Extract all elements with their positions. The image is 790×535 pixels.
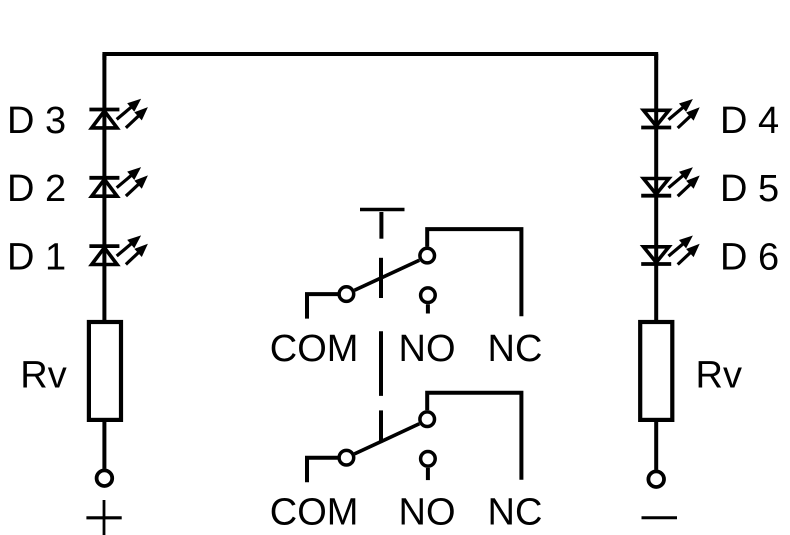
LED D2 (anode bottom, cathode bar top) — [89, 178, 119, 196]
LED D5 (anode top, cathode bar bottom) — [641, 179, 671, 196]
LED D1 emission arrows — [117, 235, 148, 264]
terminal + (left) — [97, 470, 113, 486]
switch S1 lever (COM to NC, closed) — [355, 260, 420, 290]
LED D4 emission arrows — [669, 99, 700, 128]
svg-text:COM: COM — [270, 492, 359, 534]
LED D1 (anode bottom, cathode bar top) — [89, 246, 119, 264]
pushbutton actuator T — [360, 210, 405, 239]
wire: left LED branch — [102, 54, 106, 321]
mechanical link (dashed) — [379, 258, 383, 442]
polarity - symbol — [642, 516, 678, 519]
switch S1 COM contact — [339, 287, 354, 302]
switch S1 NO contact — [421, 288, 436, 303]
svg-text:D 3: D 3 — [7, 100, 66, 142]
LED D6 (anode top, cathode bar bottom) — [641, 247, 671, 264]
switch S1 COM wire — [307, 294, 338, 319]
terminal - (right) — [648, 471, 664, 487]
LED D4 (anode top, cathode bar bottom) — [641, 110, 671, 127]
switch S2 NO contact — [421, 452, 436, 467]
LED D2 emission arrows — [117, 167, 148, 196]
switch S2 COM contact — [339, 450, 354, 465]
svg-text:D 4: D 4 — [720, 100, 779, 142]
switch S1 NC wire — [427, 229, 521, 316]
LED D3 (anode bottom, cathode bar top) — [89, 110, 119, 128]
switch S2 NC wire — [427, 393, 521, 480]
switch S2 NO stub — [426, 468, 430, 480]
switch S2 lever (COM to NC, closed) — [355, 424, 420, 454]
svg-text:D 2: D 2 — [7, 168, 66, 210]
LED D5 emission arrows — [669, 167, 700, 196]
polarity + symbol — [86, 500, 121, 535]
resistor Rv right — [640, 322, 672, 420]
svg-text:D 1: D 1 — [7, 236, 66, 278]
switch S2 COM wire — [307, 458, 338, 483]
LED D3 emission arrows — [117, 99, 148, 128]
switch S2 NC contact — [420, 412, 435, 427]
svg-text:NC: NC — [488, 328, 543, 370]
svg-text:D 6: D 6 — [720, 236, 779, 278]
svg-text:D 5: D 5 — [720, 168, 779, 210]
wire: right LED branch — [654, 54, 658, 321]
switch S1 NC contact — [420, 248, 435, 263]
svg-text:NC: NC — [488, 492, 543, 534]
svg-text:COM: COM — [270, 328, 359, 370]
resistor Rv left — [89, 322, 121, 420]
wire: right resistor to terminal — [654, 421, 658, 470]
svg-text:NO: NO — [399, 492, 456, 534]
wire: left resistor to terminal — [102, 421, 106, 469]
LED D6 emission arrows — [669, 236, 700, 265]
svg-text:Rv: Rv — [20, 354, 66, 396]
svg-text:Rv: Rv — [696, 354, 742, 396]
switch S1 NO stub — [426, 304, 430, 313]
svg-text:NO: NO — [399, 328, 456, 370]
wire: top supply bus — [104, 54, 656, 60]
